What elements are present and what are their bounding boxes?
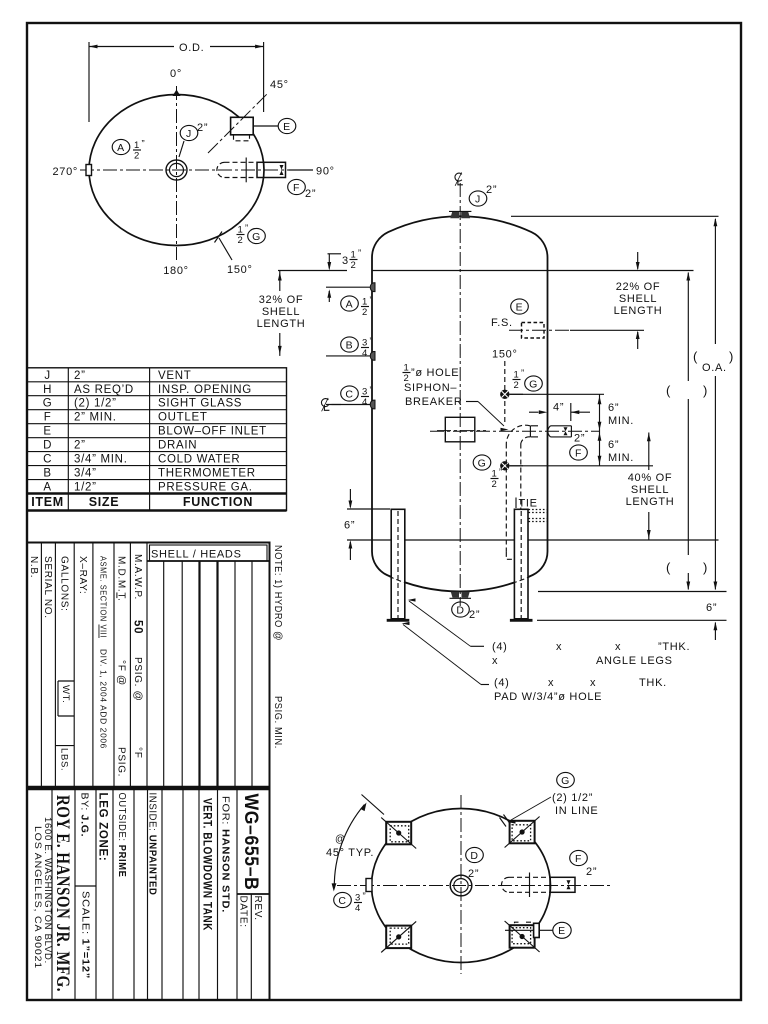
svg-text:”: ” xyxy=(363,891,367,902)
svg-text:J: J xyxy=(475,193,481,205)
bottom view vertical centerline xyxy=(460,795,462,974)
svg-text:2”: 2” xyxy=(197,122,208,134)
svg-text:90°: 90° xyxy=(316,166,335,178)
outlet F label xyxy=(570,433,588,461)
nozzle C label xyxy=(341,385,374,408)
svg-text:MIN.: MIN. xyxy=(608,452,634,464)
svg-text:G: G xyxy=(561,775,570,787)
svg-text:4: 4 xyxy=(362,397,368,408)
6 inch min lower dimension xyxy=(510,431,635,466)
svg-text:WG–655–B: WG–655–B xyxy=(240,794,261,891)
svg-text:E: E xyxy=(558,925,566,937)
svg-text:2: 2 xyxy=(492,479,498,490)
svg-text:BREAKER: BREAKER xyxy=(405,396,462,408)
svg-text:C: C xyxy=(345,388,353,400)
svg-text:IN LINE: IN LINE xyxy=(555,805,598,817)
svg-text:ROY E. HANSON JR. MFG.: ROY E. HANSON JR. MFG. xyxy=(52,795,73,992)
overall height dimension xyxy=(693,218,734,590)
svg-text:(4): (4) xyxy=(492,641,508,653)
svg-text:INSP. OPENING: INSP. OPENING xyxy=(158,384,252,396)
svg-text:x: x xyxy=(548,677,554,689)
svg-text:DRAIN: DRAIN xyxy=(158,440,197,452)
svg-text:SIZE: SIZE xyxy=(89,495,120,509)
svg-text:1600 E. WASHINGTON BLVD.: 1600 E. WASHINGTON BLVD. xyxy=(43,817,53,964)
svg-text:2”: 2” xyxy=(486,184,497,196)
svg-text:): ) xyxy=(703,560,708,575)
svg-text:A: A xyxy=(117,142,125,154)
pad leader xyxy=(402,622,490,685)
outlet pipe F xyxy=(430,426,600,437)
svg-text:SIGHT GLASS: SIGHT GLASS xyxy=(158,398,242,410)
svg-text:150°: 150° xyxy=(492,349,518,361)
svg-text:BY: J.G.: BY: J.G. xyxy=(79,793,91,838)
svg-text:INSIDE: UNPAINTED: INSIDE: UNPAINTED xyxy=(147,793,159,896)
svg-text:M.D.M.T.: M.D.M.T. xyxy=(115,556,126,602)
nozzle G bottom view tick xyxy=(500,815,511,827)
nozzle G label top view xyxy=(237,223,266,246)
svg-text:2: 2 xyxy=(514,380,520,391)
45 deg typ label xyxy=(326,834,374,859)
leg xyxy=(387,509,410,620)
title block lower texts xyxy=(33,793,263,993)
G sight glass centerline xyxy=(504,361,506,425)
svg-text:C: C xyxy=(43,454,52,466)
svg-text:D: D xyxy=(43,440,52,452)
svg-text:6”: 6” xyxy=(706,602,717,614)
150 degree label xyxy=(219,238,253,276)
svg-text:”: ” xyxy=(521,368,525,379)
svg-text:6”: 6” xyxy=(344,520,355,532)
nozzle J top view xyxy=(166,160,187,180)
internal outlet pipe hidden xyxy=(506,444,521,560)
svg-text:2” MIN.: 2” MIN. xyxy=(74,412,117,424)
svg-text:PAD W/3/4”ø HOLE: PAD W/3/4”ø HOLE xyxy=(494,691,602,703)
front view top head xyxy=(372,216,548,270)
svg-text:50: 50 xyxy=(131,620,143,634)
6 inch min upper dimension xyxy=(510,394,635,431)
svg-text:”: ” xyxy=(370,385,374,396)
svg-text:OUTLET: OUTLET xyxy=(158,412,208,424)
svg-text:ASME. SECTION VIII: ASME. SECTION VIII xyxy=(98,556,108,638)
45 degree centerline xyxy=(208,79,289,153)
internal baffle plate xyxy=(437,417,486,442)
nozzle D drain stub xyxy=(450,592,472,599)
svg-text:): ) xyxy=(729,349,734,364)
front view bottom head xyxy=(372,540,548,591)
nozzle E top view xyxy=(231,117,254,141)
nozzle A label xyxy=(341,295,374,318)
outlet pipe elbow hidden xyxy=(506,425,530,443)
bottom tangent extension right xyxy=(548,539,719,541)
bottom head hidden seam xyxy=(389,576,531,583)
leg floor extension line xyxy=(537,619,727,621)
svg-text:4: 4 xyxy=(355,903,361,914)
nozzle C bottom view xyxy=(366,879,372,892)
0 degree tick xyxy=(170,68,182,96)
svg-text:COLD WATER: COLD WATER xyxy=(158,454,240,466)
svg-text:VENT: VENT xyxy=(158,370,191,382)
svg-text:32% OF: 32% OF xyxy=(259,294,304,306)
svg-text:C: C xyxy=(338,895,346,907)
sight glass G upper bolt xyxy=(500,390,523,399)
svg-text:(2) 1/2”: (2) 1/2” xyxy=(74,398,117,410)
svg-text:E: E xyxy=(516,301,524,313)
svg-text:VERT. BLOWDOWN TANK: VERT. BLOWDOWN TANK xyxy=(200,798,212,931)
shell length reference dimension xyxy=(666,272,708,590)
sight glass G lower label xyxy=(473,455,503,490)
svg-text:DIV. 1, 2004 ADD 2006: DIV. 1, 2004 ADD 2006 xyxy=(98,649,108,749)
svg-text:”: ” xyxy=(499,467,503,478)
svg-text:x: x xyxy=(615,641,621,653)
svg-text:(: ( xyxy=(666,383,671,398)
svg-text:LBS.: LBS. xyxy=(59,748,70,771)
nozzle J label front xyxy=(469,184,497,206)
svg-text:GALLONS:: GALLONS: xyxy=(58,556,69,612)
nozzle C label bottom view xyxy=(334,891,367,914)
angle legs note xyxy=(492,641,690,667)
nozzle J label xyxy=(179,122,208,157)
svg-text:45°: 45° xyxy=(270,79,289,91)
svg-text:6”: 6” xyxy=(608,402,619,414)
svg-text:F: F xyxy=(575,447,582,459)
svg-text:G: G xyxy=(43,398,53,410)
svg-text:SHELL: SHELL xyxy=(262,306,300,318)
svg-text:LENGTH: LENGTH xyxy=(614,305,663,317)
hydro note xyxy=(272,545,284,749)
svg-text:4”: 4” xyxy=(553,402,564,414)
bottom view shell circle xyxy=(372,809,551,963)
svg-text:REV.: REV. xyxy=(252,896,263,921)
svg-text:F: F xyxy=(575,853,582,865)
sight glass G lower bolt xyxy=(500,461,523,470)
svg-text:PSIG.: PSIG. xyxy=(115,747,126,777)
angle legs leader xyxy=(408,598,485,646)
bottom view horizontal centerline xyxy=(337,885,612,887)
item-size-function table xyxy=(27,368,287,511)
svg-text:D: D xyxy=(456,604,464,616)
svg-text:45° TYP.: 45° TYP. xyxy=(326,847,374,859)
45 deg typ radial extension xyxy=(362,795,385,815)
40 percent extension line xyxy=(604,465,653,467)
svg-text:SHELL: SHELL xyxy=(631,484,669,496)
90 degree label xyxy=(289,166,335,178)
svg-text:E: E xyxy=(283,121,291,133)
svg-text:AS REQ’D: AS REQ’D xyxy=(74,384,134,396)
O.D. dimension xyxy=(89,42,264,122)
front view shell xyxy=(372,271,548,541)
svg-text:270°: 270° xyxy=(52,166,78,178)
svg-text:B: B xyxy=(346,339,354,351)
svg-text:THK.: THK. xyxy=(639,677,667,689)
top view vertical centerline xyxy=(176,86,178,260)
nozzle B label xyxy=(341,336,374,359)
top view shell circle xyxy=(89,95,264,246)
svg-text:(: ( xyxy=(693,349,698,364)
svg-text:22% OF: 22% OF xyxy=(616,281,661,293)
svg-text:D: D xyxy=(470,850,478,862)
svg-text:40% OF: 40% OF xyxy=(628,472,673,484)
svg-text:180°: 180° xyxy=(163,265,189,277)
svg-text:2: 2 xyxy=(351,260,357,271)
nozzle A stub xyxy=(326,283,375,292)
nozzle F label bottom view xyxy=(570,850,597,878)
F.S. label xyxy=(491,317,513,329)
svg-text:): ) xyxy=(703,383,708,398)
180 degree label xyxy=(163,265,189,277)
svg-text:N.B.: N.B. xyxy=(28,556,39,578)
bottom 6 inch dimension xyxy=(706,602,717,640)
svg-text:2: 2 xyxy=(238,235,244,246)
svg-text:F.S.: F.S. xyxy=(491,317,513,329)
svg-text:LEG ZONE:: LEG ZONE: xyxy=(96,793,108,862)
svg-text:A: A xyxy=(346,298,354,310)
nozzle F bottom view xyxy=(502,873,576,898)
tie bracket xyxy=(516,498,548,522)
270 degree label xyxy=(52,166,78,178)
svg-text:”: ” xyxy=(370,295,374,306)
svg-text:LOS ANGELES, CA 90021: LOS ANGELES, CA 90021 xyxy=(33,826,43,969)
front view centerline symbol xyxy=(455,172,463,185)
svg-text:6”: 6” xyxy=(608,439,619,451)
150 degree label front xyxy=(492,349,518,361)
svg-text:0°: 0° xyxy=(170,68,182,80)
title block upper texts xyxy=(28,554,143,777)
title block lower grid xyxy=(52,788,270,1000)
svg-text:LENGTH: LENGTH xyxy=(257,318,306,330)
svg-text:PRESSURE GA.: PRESSURE GA. xyxy=(158,482,253,494)
svg-text:H: H xyxy=(43,384,52,396)
leg xyxy=(510,509,533,620)
nozzle E label bottom view xyxy=(539,922,571,938)
svg-text:ANGLE LEGS: ANGLE LEGS xyxy=(596,655,673,667)
svg-text:2: 2 xyxy=(134,151,140,162)
front view vertical centerline xyxy=(459,183,461,606)
svg-text:2: 2 xyxy=(362,307,368,318)
svg-text:°F: °F xyxy=(132,747,143,759)
nozzle A label xyxy=(112,139,145,162)
svg-text:2”: 2” xyxy=(74,440,86,452)
dome top extension line xyxy=(511,215,719,217)
svg-text:2”: 2” xyxy=(305,188,316,200)
head bottom extension line xyxy=(538,591,727,593)
svg-text:E: E xyxy=(43,426,51,438)
svg-text:2”: 2” xyxy=(469,609,480,621)
svg-text:G: G xyxy=(529,378,538,390)
sight glass G upper label xyxy=(513,368,543,391)
svg-text:”: ” xyxy=(358,248,362,259)
leg pad lower left xyxy=(381,921,416,952)
svg-text:3/4” MIN.: 3/4” MIN. xyxy=(74,454,128,466)
svg-text:THERMOMETER: THERMOMETER xyxy=(158,468,256,480)
svg-text:3/4”: 3/4” xyxy=(74,468,97,480)
E nozzle extension line right xyxy=(570,329,644,331)
left 6 inch dimension xyxy=(344,489,390,560)
nozzle F label xyxy=(288,179,316,200)
svg-text:”ø HOLE: ”ø HOLE xyxy=(411,367,459,379)
nozzle G label bottom view xyxy=(508,772,599,823)
svg-text:PSIG. MIN.: PSIG. MIN. xyxy=(272,696,284,749)
title block grid xyxy=(27,543,270,1001)
svg-text:A: A xyxy=(43,482,51,494)
top view horizontal centerline xyxy=(80,169,292,171)
22 percent dimension xyxy=(614,252,663,349)
svg-text:PSIG. @: PSIG. @ xyxy=(132,657,143,702)
nozzle B stub xyxy=(326,352,375,361)
nozzle E label xyxy=(253,118,296,133)
svg-text:SHELL: SHELL xyxy=(619,293,657,305)
svg-text:SHELL / HEADS: SHELL / HEADS xyxy=(151,549,242,561)
svg-text:SCALE: 1”=12”: SCALE: 1”=12” xyxy=(80,891,92,979)
svg-text:x: x xyxy=(492,655,498,667)
svg-text:x: x xyxy=(556,641,562,653)
svg-text:2”: 2” xyxy=(74,370,86,382)
leg pad lower right xyxy=(505,921,540,952)
32 percent shell length dimension xyxy=(257,271,347,356)
nozzle D bottom view xyxy=(450,875,472,896)
svg-text:SIPHON–: SIPHON– xyxy=(404,382,457,394)
svg-text:M.A.W.P.: M.A.W.P. xyxy=(132,554,143,600)
svg-text:(2) 1/2”: (2) 1/2” xyxy=(552,792,593,804)
svg-text:2”: 2” xyxy=(574,433,585,445)
svg-text:X–RAY:: X–RAY: xyxy=(77,556,88,594)
front view top tangent line xyxy=(372,270,548,272)
nozzle C stub xyxy=(326,400,375,409)
svg-text:BLOW–OFF INLET: BLOW–OFF INLET xyxy=(158,426,267,438)
nozzle E front view xyxy=(509,323,570,339)
nozzle G top view tick xyxy=(215,232,223,243)
svg-text:SERIAL NO.: SERIAL NO. xyxy=(42,556,53,619)
nozzle J vent stub xyxy=(449,211,471,218)
svg-text:ITEM: ITEM xyxy=(31,495,64,509)
front view bottom tangent line xyxy=(372,539,548,541)
nozzle D label xyxy=(452,602,480,621)
svg-text:G: G xyxy=(478,457,487,469)
svg-text:@: @ xyxy=(335,834,346,845)
leg pad upper left xyxy=(381,818,416,849)
svg-text:F: F xyxy=(293,182,300,194)
svg-text:FUNCTION: FUNCTION xyxy=(183,495,253,509)
nozzle A top view xyxy=(86,165,92,176)
svg-text:O.A.: O.A. xyxy=(702,362,727,374)
svg-text:”: ” xyxy=(142,139,146,150)
svg-text:(: ( xyxy=(666,560,671,575)
svg-text:WT.: WT. xyxy=(60,685,71,703)
svg-text:OUTSIDE: PRIME: OUTSIDE: PRIME xyxy=(116,793,128,878)
svg-text:NOTE: 1) HYDRO @: NOTE: 1) HYDRO @ xyxy=(272,545,284,641)
4 inch dimension xyxy=(529,402,590,422)
40 percent dimension xyxy=(626,433,675,541)
pad note xyxy=(494,677,667,703)
svg-text:FOR: HANSON STD.: FOR: HANSON STD. xyxy=(220,796,232,913)
svg-text:3: 3 xyxy=(342,255,349,267)
leg pad upper right xyxy=(505,817,540,848)
svg-text:”THK.: ”THK. xyxy=(658,641,690,653)
svg-text:(4): (4) xyxy=(494,677,510,689)
svg-text:J: J xyxy=(44,370,50,382)
centerline symbol at C xyxy=(321,398,341,411)
svg-text:°F @: °F @ xyxy=(115,660,126,686)
svg-text:2”: 2” xyxy=(586,866,597,878)
nozzle E label front xyxy=(511,299,529,314)
svg-text:G: G xyxy=(252,231,261,243)
svg-text:F: F xyxy=(44,412,52,424)
svg-text:J: J xyxy=(186,128,192,140)
svg-text:LENGTH: LENGTH xyxy=(626,496,675,508)
svg-text:x: x xyxy=(590,677,596,689)
svg-text:150°: 150° xyxy=(227,264,253,276)
svg-text:”: ” xyxy=(370,336,374,347)
nozzle F top view xyxy=(217,158,286,183)
svg-text:O.D.: O.D. xyxy=(179,42,204,54)
svg-text:DATE:: DATE: xyxy=(237,896,248,928)
siphon breaker note xyxy=(403,363,509,432)
svg-text:2”: 2” xyxy=(468,868,479,880)
nozzle E bottom view xyxy=(505,922,539,937)
nozzle D label bottom view xyxy=(466,847,484,880)
svg-text:4: 4 xyxy=(362,348,368,359)
45 deg typ arc xyxy=(332,803,367,892)
svg-text:TIE: TIE xyxy=(519,498,538,510)
svg-text:B: B xyxy=(43,468,51,480)
svg-text:MIN.: MIN. xyxy=(608,415,634,427)
3-1/2 inch dimension xyxy=(327,248,361,302)
svg-text:1/2”: 1/2” xyxy=(74,482,97,494)
tangent extension line right xyxy=(548,270,694,272)
